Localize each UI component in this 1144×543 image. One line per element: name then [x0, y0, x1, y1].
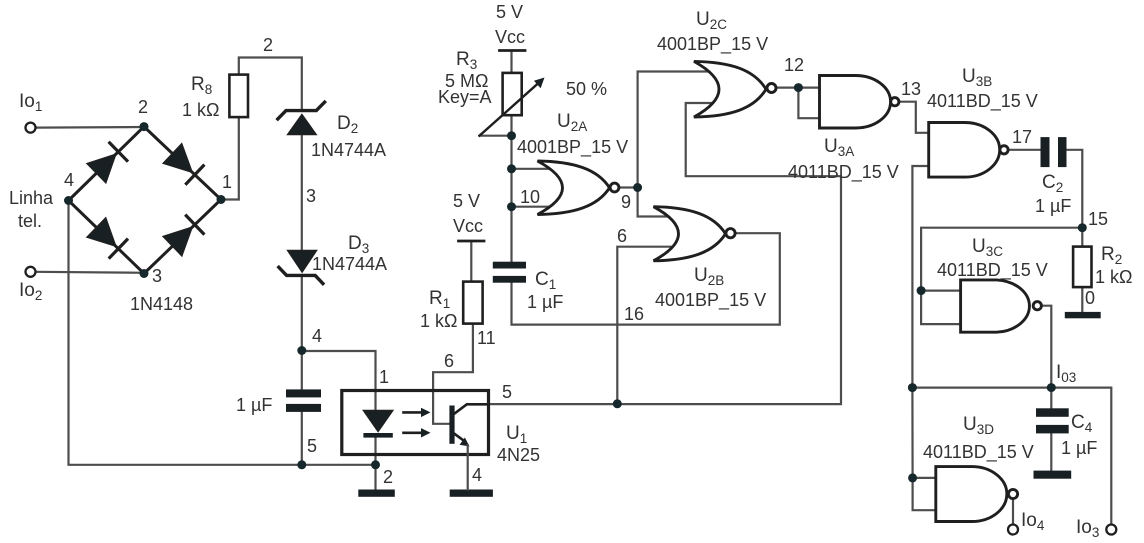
svg-text:5 V: 5 V — [496, 2, 523, 22]
svg-text:Io1: Io1 — [19, 91, 42, 114]
label R3 key — [438, 87, 492, 107]
label U1 pin 2 — [383, 467, 393, 487]
wire I03 line to Io3 terminal — [912, 388, 1111, 525]
label U3B — [962, 66, 992, 89]
wire C2 right to net 15 — [1067, 150, 1083, 228]
bridge diode D-SW — [87, 218, 127, 258]
diode bridge 1N4148 outline — [69, 127, 222, 274]
node 9 U2A output junction — [633, 183, 642, 192]
svg-text:12: 12 — [784, 55, 804, 75]
node 5 junction U1 pin 2 — [371, 460, 380, 469]
wire net 13 U3A output to U3B upper input — [900, 102, 929, 133]
label U2B — [694, 265, 724, 288]
svg-text:C2: C2 — [1042, 172, 1063, 195]
svg-text:5: 5 — [307, 436, 317, 456]
label net 9 — [621, 192, 631, 212]
svg-text:13: 13 — [901, 79, 921, 99]
svg-text:4001BP_15 V: 4001BP_15 V — [655, 290, 766, 311]
NOR gate U2B 4001BP — [654, 207, 736, 261]
wire net 9 to U2B upper input — [638, 188, 672, 217]
label net 4 — [312, 326, 322, 346]
NAND gate U3A 4011BD — [820, 76, 899, 129]
svg-text:4001BP_15 V: 4001BP_15 V — [517, 137, 628, 158]
svg-text:U3B: U3B — [962, 66, 992, 89]
wire net 11 R1 bottom to U1 pin 6 base — [433, 324, 473, 424]
wire R3 wiper to net 10 — [480, 135, 512, 137]
svg-text:4N25: 4N25 — [497, 445, 540, 465]
label Vcc for R1 — [453, 216, 483, 236]
wire U2A input stub upper — [512, 168, 561, 170]
resistor R8 1 kOhm — [229, 75, 248, 118]
svg-text:2: 2 — [263, 35, 273, 55]
label U1 value — [497, 445, 540, 465]
label U3B value — [927, 91, 1038, 112]
ground under U1 pin 2 — [358, 490, 395, 497]
svg-text:6: 6 — [617, 226, 627, 246]
wire bridge node 1 to R8 bottom — [221, 117, 239, 199]
svg-text:U1: U1 — [506, 423, 527, 446]
svg-text:0: 0 — [1085, 288, 1095, 308]
label R1 — [429, 288, 450, 311]
label net 10 — [520, 187, 540, 207]
wire node 4 to capacitor top — [301, 351, 303, 391]
label D3 value — [312, 254, 387, 274]
svg-text:11: 11 — [477, 328, 496, 348]
wire U3C output to I03 line — [1042, 306, 1052, 388]
svg-text:1N4744A: 1N4744A — [311, 140, 386, 160]
svg-text:4011BD_15 V: 4011BD_15 V — [927, 91, 1038, 112]
wire bridge node 4 down and along bottom rail — [69, 201, 376, 465]
svg-text:2: 2 — [138, 97, 148, 117]
wire I03 to U3D inputs — [912, 388, 935, 478]
svg-text:3: 3 — [152, 266, 162, 286]
bridge diode D-NW — [87, 143, 127, 183]
U1 LED — [363, 411, 392, 438]
wire net 12 U2C output to U3A inputs — [776, 86, 820, 88]
label U3D — [963, 414, 994, 437]
svg-text:I03: I03 — [1056, 362, 1076, 385]
wire net 12 to U3A lower input — [798, 88, 819, 119]
svg-text:1N4744A: 1N4744A — [312, 254, 387, 274]
wire net 9 U2A output to U2C input — [619, 72, 716, 188]
zener diode D3 1N4744A — [279, 251, 323, 284]
node 4 bridge left — [64, 196, 73, 205]
label net 6 pin — [444, 351, 454, 371]
wire Io2 to bridge node 3 — [36, 272, 144, 273]
wire net 15 to U3C inputs — [921, 228, 1082, 324]
node I03 junction left — [908, 383, 917, 392]
U1 light arrow lower — [404, 428, 431, 437]
svg-text:R1: R1 — [429, 288, 450, 311]
label C2 value — [1035, 196, 1071, 216]
svg-text:U3A: U3A — [824, 136, 854, 159]
svg-text:4: 4 — [64, 170, 74, 190]
node 2 bridge top — [140, 122, 149, 131]
bridge diode D-NE — [163, 144, 203, 184]
svg-text:9: 9 — [621, 192, 631, 212]
label U3A — [824, 136, 854, 159]
node 3 bridge bottom — [140, 269, 149, 278]
node I03 U3D input junction — [908, 473, 917, 482]
node 10 wiper junction — [507, 131, 516, 140]
ground under U1 pin 4 — [450, 490, 493, 497]
svg-text:1 µF: 1 µF — [1061, 438, 1097, 458]
label D2 — [337, 113, 358, 136]
wire net 5 U1 collector to U2C input — [487, 103, 841, 404]
svg-text:R2: R2 — [1101, 244, 1122, 267]
label C4 value — [1061, 438, 1097, 458]
label U2B value — [655, 290, 766, 311]
label net 15 — [1088, 209, 1108, 229]
wire U1 LED anode — [374, 391, 376, 411]
svg-text:6: 6 — [444, 351, 454, 371]
NAND gate U3D 4011BD — [936, 467, 1018, 522]
label net I03 — [1056, 362, 1076, 385]
wire Vcc to R1 top — [470, 241, 472, 282]
label net 2 — [263, 35, 273, 55]
label net 17 — [1012, 127, 1032, 147]
NAND gate U3B 4011BD — [929, 123, 1008, 178]
label U3D value — [923, 442, 1034, 463]
svg-text:1 kΩ: 1 kΩ — [182, 100, 219, 120]
node 6 junction on net 5 — [613, 399, 622, 408]
wire U3D lower input stub — [913, 478, 936, 510]
label Io1 — [19, 91, 42, 114]
label R2 — [1101, 244, 1122, 267]
label R8 — [191, 74, 212, 97]
svg-text:15: 15 — [1088, 209, 1108, 229]
label U1 pin 1 — [379, 367, 389, 387]
wire net 3 D2 to D3 — [301, 136, 303, 251]
label U3A value — [788, 162, 899, 183]
svg-text:4: 4 — [312, 326, 322, 346]
node 15 junction C2-R2 — [1078, 223, 1087, 232]
node 10 U2A lower input junction — [507, 202, 516, 211]
ground under C4 — [1034, 471, 1072, 479]
label C1 value — [527, 292, 563, 312]
svg-text:50 %: 50 % — [566, 79, 607, 99]
terminal Io1 — [26, 123, 36, 133]
label U1 pin 4 — [472, 465, 482, 485]
label net 16 — [624, 304, 644, 324]
svg-text:Io3: Io3 — [1076, 517, 1099, 540]
label Io3 — [1076, 517, 1099, 540]
svg-text:1 µF: 1 µF — [236, 395, 272, 415]
label C2 — [1042, 172, 1063, 195]
wire net 17 U3B output to C2 — [1008, 149, 1040, 151]
capacitor 1 uF (bridge filter) — [286, 389, 321, 412]
wire net 6 U2B lower input — [617, 247, 678, 404]
svg-text:1: 1 — [222, 172, 232, 192]
svg-text:4011BD_15 V: 4011BD_15 V — [937, 260, 1048, 281]
label bridge pin 1 — [222, 172, 232, 192]
label C1 — [535, 269, 556, 292]
svg-text:U2A: U2A — [557, 111, 587, 134]
wire Vcc to R3 top — [510, 52, 512, 73]
label R3 — [456, 49, 477, 72]
svg-text:Io2: Io2 — [19, 280, 42, 303]
label bridge pin 3 — [152, 266, 162, 286]
svg-text:R8: R8 — [191, 74, 212, 97]
potentiometer R3 5 MOhm body — [503, 73, 522, 115]
svg-text:C4: C4 — [1071, 412, 1093, 435]
label net 11 — [477, 328, 496, 348]
label net 5 — [307, 436, 317, 456]
label R8 value — [182, 100, 219, 120]
svg-text:1 µF: 1 µF — [1035, 196, 1071, 216]
svg-text:C1: C1 — [535, 269, 556, 292]
svg-text:U2C: U2C — [696, 9, 727, 32]
wire U1 LED cathode to pin 2 — [374, 438, 376, 465]
svg-text:10: 10 — [520, 187, 540, 207]
wire net 15 U3C upper input stub — [921, 290, 961, 292]
svg-text:Vcc: Vcc — [495, 27, 525, 47]
svg-text:Io4: Io4 — [1021, 510, 1045, 533]
node 4 junction D3-C-U1 — [297, 346, 306, 355]
label net 13 — [901, 79, 921, 99]
ground net 0 under R2 — [1065, 312, 1101, 318]
wire C4 top — [1050, 388, 1052, 409]
svg-text:U3C: U3C — [972, 236, 1003, 259]
svg-text:16: 16 — [624, 304, 644, 324]
wire U1 pin 2 to ground — [374, 465, 376, 490]
label C4 — [1071, 412, 1093, 435]
wire U3D output to Io4 terminal — [1012, 499, 1014, 525]
wire R2 bottom to ground 0 — [1081, 287, 1083, 312]
node I03 junction U3C output — [1047, 383, 1056, 392]
svg-text:5 V: 5 V — [453, 191, 480, 211]
NOR gate U2C 4001BP — [694, 61, 776, 117]
label Linha tel. — [9, 188, 54, 231]
svg-text:5: 5 — [502, 382, 512, 402]
svg-text:Vcc: Vcc — [453, 216, 483, 236]
node 1 bridge right — [217, 195, 226, 204]
label 50 percent — [566, 79, 607, 99]
label 1N4148 — [130, 294, 193, 314]
label D3 — [348, 233, 369, 256]
resistor R1 1 kOhm — [463, 282, 482, 324]
svg-text:Key=A: Key=A — [438, 87, 492, 107]
wire C4 bottom to ground — [1050, 433, 1052, 471]
wire I03 U3B lower input down — [912, 166, 928, 388]
label D2 value — [311, 140, 386, 160]
label U2A — [557, 111, 587, 134]
label net 5 pin — [502, 382, 512, 402]
wire net 15 to R2 top — [1081, 228, 1083, 247]
capacitor C2 1 uF — [1041, 137, 1067, 167]
Vcc supply bar for R3 — [500, 49, 526, 52]
svg-text:D2: D2 — [337, 113, 358, 136]
label net 12 — [784, 55, 804, 75]
svg-text:17: 17 — [1012, 127, 1032, 147]
label capacitor value — [236, 395, 272, 415]
label R1 value — [420, 311, 457, 331]
label U3C — [972, 236, 1003, 259]
node 15 U3C input junction — [917, 286, 926, 295]
wire Io1 to bridge node 2 — [36, 126, 144, 129]
bridge diode D-SE — [163, 216, 203, 256]
label bridge pin 4 — [64, 170, 74, 190]
label R3 value — [445, 71, 488, 91]
svg-text:R3: R3 — [456, 49, 477, 72]
node 5 junction capacitor bottom — [297, 460, 306, 469]
potentiometer R3 wiper arrow — [480, 78, 545, 136]
label 5V for R3 — [496, 2, 523, 22]
label net 0 — [1085, 288, 1095, 308]
node 12 U2C output junction — [794, 83, 803, 92]
Vcc supply bar for R1 — [459, 240, 485, 243]
svg-text:tel.: tel. — [18, 211, 42, 231]
svg-text:4011BD_15 V: 4011BD_15 V — [788, 162, 899, 183]
svg-text:Linha: Linha — [9, 188, 54, 208]
op-amp U1 4N25 optocoupler box — [342, 391, 489, 455]
terminal Io3 — [1106, 525, 1116, 535]
svg-text:U3D: U3D — [963, 414, 994, 437]
wire net 2 R8 top to D2 — [239, 58, 302, 110]
label Vcc for R3 — [495, 27, 525, 47]
NOR gate U2A 4001BP — [538, 161, 619, 215]
label Io2 — [19, 280, 42, 303]
svg-text:1 kΩ: 1 kΩ — [420, 311, 457, 331]
label U2A value — [517, 137, 628, 158]
terminal Io4 — [1008, 525, 1018, 535]
svg-text:2: 2 — [383, 467, 393, 487]
transistor Q of U1 — [449, 404, 488, 489]
svg-text:U2B: U2B — [694, 265, 724, 288]
wire D3 to node 4 — [301, 277, 303, 351]
node 10 U2A upper input junction — [507, 164, 516, 173]
label Io4 — [1021, 510, 1045, 533]
svg-text:1: 1 — [379, 367, 389, 387]
svg-text:1 µF: 1 µF — [527, 292, 563, 312]
svg-text:3: 3 — [306, 186, 316, 206]
terminal Io2 — [26, 267, 36, 277]
resistor R2 1 kOhm — [1073, 247, 1091, 288]
label U3C value — [937, 260, 1048, 281]
wire U2A input stub lower — [512, 206, 561, 208]
wire capacitor bottom to net 5 rail — [301, 412, 303, 465]
wire net 16 C1 bottom to U2B output — [512, 233, 780, 324]
svg-text:4: 4 — [472, 465, 482, 485]
capacitor C1 1 uF — [493, 262, 526, 283]
svg-text:4001BP_15 V: 4001BP_15 V — [657, 34, 768, 55]
svg-text:D3: D3 — [348, 233, 369, 256]
label bridge pin 2 — [138, 97, 148, 117]
label R2 value — [1095, 267, 1132, 287]
wire node 4 to U1 pin 1 — [302, 351, 376, 391]
label U1 — [506, 423, 527, 446]
label net 6 — [617, 226, 627, 246]
label 5V for R1 — [453, 191, 480, 211]
label net 3 — [306, 186, 316, 206]
zener diode D2 1N4744A — [278, 102, 325, 134]
svg-text:4011BD_15 V: 4011BD_15 V — [923, 442, 1034, 463]
svg-text:1 kΩ: 1 kΩ — [1095, 267, 1132, 287]
NAND gate U3C 4011BD — [961, 280, 1042, 332]
wire net 10 R3 bottom to C1 top — [510, 115, 512, 262]
U1 light arrow upper — [404, 408, 431, 417]
capacitor C4 1 uF — [1036, 408, 1069, 433]
label U2C — [696, 9, 727, 32]
label U2C value — [657, 34, 768, 55]
svg-text:1N4148: 1N4148 — [130, 294, 193, 314]
